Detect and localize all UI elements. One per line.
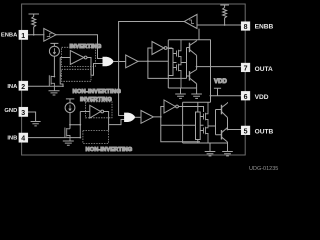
gate G2 (AND ch B, filled)	[125, 113, 135, 121]
ground (output A left)	[175, 94, 186, 98]
IC boundary	[22, 4, 246, 155]
resistor R1 (ENBA pull-up)	[32, 17, 36, 35]
inverter U4 (ch A pre-driver)	[152, 42, 164, 55]
OUTB wire	[228, 129, 242, 131]
ground (input B)	[63, 141, 74, 145]
svg-text:OUTB: OUTB	[255, 128, 274, 135]
transistor Q5 (output high B)	[221, 105, 223, 115]
ground (output B left)	[205, 152, 216, 156]
svg-text:INVERTING: INVERTING	[80, 97, 112, 103]
VDD spur to ENBB buffer	[198, 29, 200, 40]
transistor Q2 (input clamp B)	[65, 128, 70, 141]
small fet M1 (pre-drive high A)	[173, 40, 181, 63]
wire buffer B out	[153, 107, 200, 142]
wire node B to inverter	[80, 111, 90, 113]
pin 3 wire (GND)	[28, 112, 36, 122]
VDD rail A	[168, 39, 210, 41]
transistor Q3 (output high A)	[189, 43, 191, 53]
ground (pin 3)	[31, 122, 41, 126]
pin 4 box	[19, 133, 28, 143]
VDD tap above current source A	[50, 43, 58, 46]
buffer U1 (ENBA schmitt)	[44, 28, 56, 41]
svg-text:4: 4	[21, 136, 25, 143]
pin 2 wire (INA)	[28, 85, 49, 87]
svg-text:VDD: VDD	[214, 79, 228, 85]
VDD rail B	[183, 101, 211, 103]
wire ENBA to gate A	[56, 35, 103, 59]
buffer U7 (ch B driver input)	[141, 111, 153, 124]
inverter U2 (ch A inverting option)	[70, 51, 84, 65]
svg-text:3: 3	[21, 110, 25, 117]
small fet M2 (pre-drive low A)	[173, 63, 181, 89]
inverter U6 (ch B inverting option)	[90, 105, 101, 118]
svg-text:2: 2	[21, 84, 25, 91]
left branch B	[182, 102, 184, 143]
pin 6 box	[241, 91, 250, 100]
svg-text:NON-INVERTING: NON-INVERTING	[73, 89, 122, 95]
small fet M3 (pre-drive high B)	[200, 102, 208, 126]
pin 2 box	[19, 81, 28, 91]
pin 6 wire (VDD)	[211, 95, 242, 97]
ground rail A	[168, 87, 197, 89]
svg-text:ENBA: ENBA	[1, 32, 18, 38]
VDD tap symbol	[214, 88, 221, 95]
svg-text:8: 8	[244, 24, 248, 31]
VDD rail tap (ENBB pull-up)	[220, 5, 229, 8]
transistor Q6 (output low B)	[221, 130, 223, 140]
buffer U5 (ENBB schmitt, points left)	[184, 14, 197, 28]
svg-text:7: 7	[244, 66, 248, 73]
pin 5 box	[241, 126, 250, 135]
svg-text:1: 1	[21, 33, 25, 40]
inverter U8 (ch B pre-driver)	[164, 100, 176, 113]
node wire input B	[69, 113, 71, 129]
dashed box NON-INVERTING A	[62, 69, 92, 81]
wire mid node B to output gates	[200, 110, 215, 135]
wire buffer A out	[138, 48, 187, 78]
small fet M4 (pre-drive low B)	[200, 126, 208, 143]
pin 4 wire (INB)	[28, 137, 80, 139]
ground (output B right)	[222, 152, 233, 156]
ground (output A right)	[191, 94, 202, 98]
VDD tap above current source B	[66, 99, 74, 103]
junction to node line B	[70, 112, 80, 138]
svg-text:INA: INA	[7, 84, 18, 90]
VDD vertical line	[210, 40, 212, 103]
wire inverter A out to gate A	[87, 58, 103, 76]
pin 3 box	[19, 107, 28, 117]
svg-text:UDG-01235: UDG-01235	[249, 166, 278, 171]
pin 1 box	[19, 30, 28, 40]
resistor box B	[196, 112, 201, 140]
gate G1 (AND ch A, filled)	[103, 57, 113, 65]
svg-text:NON-INVERTING: NON-INVERTING	[86, 147, 133, 153]
ground (input A)	[49, 91, 60, 95]
dashed box INVERTING A	[62, 47, 96, 66]
transistor Q1 (input clamp A)	[49, 75, 54, 91]
node wire input A	[53, 56, 55, 76]
svg-text:OUTA: OUTA	[255, 66, 273, 73]
wire gate A to buffer A	[113, 61, 126, 63]
pin 8 wire (ENBB)	[197, 24, 241, 26]
current source I2	[65, 103, 75, 113]
OUTA wire	[197, 66, 242, 68]
current source I1	[49, 46, 59, 56]
svg-text:INB: INB	[7, 135, 17, 141]
wire mid node A to output gates	[173, 48, 187, 79]
wire ENBB to gate B	[119, 22, 185, 116]
pin 7 box	[241, 63, 250, 72]
buffer U3 (ch A driver input)	[126, 55, 138, 68]
svg-text:ENBB: ENBB	[255, 24, 274, 31]
pin 1 wire (ENBA)	[28, 34, 45, 36]
resistor R2 (ENBB pull-up)	[223, 8, 227, 26]
wire gate B to buffer B	[135, 116, 141, 118]
left branch / resistor box A	[167, 40, 169, 88]
pin 8 box	[241, 22, 250, 31]
svg-text:INVERTING: INVERTING	[70, 44, 102, 50]
ground rail B	[183, 142, 228, 144]
svg-text:6: 6	[244, 94, 248, 101]
svg-text:VDD: VDD	[255, 94, 269, 101]
node line A to option boxes	[49, 58, 63, 87]
VDD rail tap (ENBA pull-up)	[29, 14, 40, 17]
svg-text:5: 5	[244, 128, 248, 135]
dashed box NON-INVERTING B	[83, 131, 109, 144]
wire inverter B out to gate B	[104, 112, 125, 131]
transistor Q4 (output low A)	[189, 71, 191, 81]
dashed box INVERTING B	[86, 102, 113, 118]
svg-text:GND: GND	[4, 108, 17, 114]
